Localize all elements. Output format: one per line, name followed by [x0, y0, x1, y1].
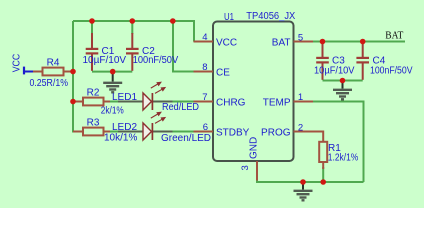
LED2 — [118, 131, 143, 133]
LED2 arrows — [151, 112, 165, 123]
svg-text:5: 5 — [298, 32, 303, 43]
svg-text:Green/LED: Green/LED — [161, 133, 211, 144]
wire top rail VCC — [73, 21, 194, 42]
wire PROG to R1 — [312, 131, 320, 133]
svg-text:2k/1%: 2k/1% — [101, 105, 124, 116]
svg-text:6: 6 — [203, 122, 208, 133]
svg-text:1.2k/1%: 1.2k/1% — [328, 152, 359, 163]
svg-text:R4: R4 — [47, 58, 60, 69]
wire C3-C4 ground rail — [323, 80, 363, 82]
svg-text:100nF/50V: 100nF/50V — [370, 66, 413, 77]
svg-text:STDBY: STDBY — [216, 128, 250, 139]
pin 2 stub — [294, 131, 314, 133]
wire R1 bottom lead — [322, 167, 324, 182]
wire C1 top lead — [91, 21, 93, 34]
wire left vertical — [73, 21, 83, 132]
svg-text:TEMP: TEMP — [263, 98, 291, 109]
svg-text:10µF/10V: 10µF/10V — [83, 55, 127, 66]
node gnd C1C2 — [110, 69, 116, 75]
wire C2 top lead — [131, 21, 133, 34]
svg-text:3: 3 — [240, 165, 251, 170]
pin 5 stub — [294, 41, 314, 43]
pin 3 stub — [256, 161, 258, 181]
svg-text:2: 2 — [298, 122, 303, 133]
svg-text:CHRG: CHRG — [216, 98, 246, 109]
VCC power port — [23, 67, 25, 75]
pin 6 stub — [194, 131, 214, 133]
node R2 branch — [70, 99, 76, 105]
node gnd C3C4 — [340, 78, 346, 84]
svg-text:R3: R3 — [87, 118, 100, 129]
svg-text:LED2: LED2 — [112, 122, 137, 133]
resistor R2 — [73, 101, 83, 103]
svg-text:GND: GND — [249, 137, 260, 159]
capacitor C4 — [362, 42, 364, 58]
svg-text:Red/LED: Red/LED — [162, 102, 199, 113]
node C2 top — [130, 18, 136, 24]
pin 4 stub — [194, 41, 214, 43]
wire CE branch — [173, 21, 194, 72]
pin 7 stub — [194, 101, 214, 103]
svg-text:1: 1 — [298, 92, 303, 103]
capacitor C3 — [322, 42, 324, 58]
resistor R4 — [33, 71, 43, 73]
pin 8 stub — [194, 71, 214, 73]
IC U1 box — [213, 22, 294, 162]
svg-text:0.25R/1%: 0.25R/1% — [30, 78, 69, 89]
svg-text:10k/1%: 10k/1% — [104, 132, 137, 143]
node C4 top — [360, 39, 366, 45]
node C3 top — [320, 39, 326, 45]
svg-text:CE: CE — [216, 68, 230, 79]
ground G3 bottom — [294, 182, 313, 200]
svg-text:7: 7 — [202, 92, 207, 103]
svg-text:BAT: BAT — [385, 30, 403, 41]
node R1 bottom — [320, 179, 326, 185]
wire R2 to LED1 — [108, 101, 122, 103]
svg-text:LED1: LED1 — [112, 92, 137, 103]
wire C1-C2 ground rail — [92, 71, 132, 73]
node gnd bottom — [300, 179, 306, 185]
svg-text:VCC: VCC — [216, 38, 237, 49]
wire LED2 to pin6 — [170, 131, 194, 133]
wire GND rail bottom — [257, 179, 364, 182]
svg-text:8: 8 — [202, 62, 207, 73]
node R4 out — [70, 69, 76, 75]
node CE branch — [170, 18, 176, 24]
svg-text:4: 4 — [202, 32, 207, 43]
wire LED1 to pin7 — [170, 101, 194, 103]
node C1 top — [89, 18, 95, 24]
pin 1 stub — [294, 101, 314, 103]
LED1 arrows — [151, 82, 165, 93]
LED1 — [118, 101, 143, 103]
svg-text:R2: R2 — [87, 88, 100, 99]
wire BAT rail — [312, 41, 405, 43]
svg-text:10µF/10V: 10µF/10V — [314, 66, 355, 77]
capacitor C2 — [131, 33, 133, 48]
capacitor C1 — [91, 33, 93, 48]
svg-text:VCC: VCC — [12, 54, 23, 73]
ground G2 under C3/C4 — [333, 81, 352, 100]
resistor R1 — [312, 132, 323, 142]
wire R3 to LED2 — [108, 131, 122, 133]
resistor R3 — [73, 131, 83, 133]
svg-text:PROG: PROG — [261, 128, 291, 139]
ground G1 under C1/C2 — [103, 72, 122, 93]
svg-text:U1: U1 — [224, 12, 234, 23]
svg-text:TP4056_JX: TP4056_JX — [246, 11, 295, 22]
svg-text:BAT: BAT — [272, 38, 291, 49]
svg-text:100nF/50V: 100nF/50V — [133, 55, 179, 66]
wire TEMP to gnd vertical — [312, 102, 364, 183]
